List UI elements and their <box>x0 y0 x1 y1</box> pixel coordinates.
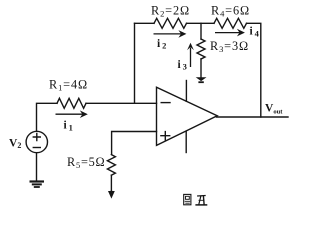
op-amp power stub bottom <box>185 131 187 152</box>
current arrow i1 <box>56 110 88 118</box>
svg-text:R3=3Ω: R3=3Ω <box>210 39 249 54</box>
V2 plus sign <box>33 134 40 141</box>
svg-text:R1=4Ω: R1=4Ω <box>49 78 88 93</box>
svg-text:i2: i2 <box>157 38 166 51</box>
svg-text:R2=2Ω: R2=2Ω <box>151 3 190 18</box>
wire R3 bottom <box>200 59 202 77</box>
wire top left segment <box>135 22 155 24</box>
ground arrow (below R5) <box>108 190 115 199</box>
current arrow i4 <box>215 29 245 37</box>
wire R1 to op-amp minus input <box>86 102 157 104</box>
voltage source V2 <box>26 131 47 152</box>
svg-text:R4=6Ω: R4=6Ω <box>211 3 250 18</box>
wire feedback vertical <box>134 23 136 103</box>
caption: Chinese character Wu (five) <box>195 196 207 205</box>
wire output <box>217 116 289 118</box>
svg-text:i4: i4 <box>250 26 260 39</box>
wire V2 bottom to ground <box>36 153 38 181</box>
resistor R2 <box>154 18 187 28</box>
caption: Chinese character Tu (figure) <box>184 194 191 204</box>
resistor R5 <box>107 155 115 176</box>
svg-text:R5=5Ω: R5=5Ω <box>67 155 105 170</box>
current arrow i3 <box>187 43 194 67</box>
wire R5 bottom <box>110 175 112 191</box>
resistor R1 <box>57 98 86 108</box>
ground (below V2) <box>30 182 45 188</box>
resistor R4 <box>214 18 247 28</box>
svg-text:Vout: Vout <box>265 103 283 116</box>
resistor R3 <box>197 39 205 59</box>
op-amp power stub top <box>185 81 187 102</box>
op-amp minus sign <box>161 102 170 104</box>
wire top right corner down to output <box>247 23 261 117</box>
wire V2 top to input node <box>37 103 58 131</box>
V2 minus sign <box>33 147 40 149</box>
svg-text:V2: V2 <box>9 137 21 150</box>
op-amp U1 <box>157 87 218 145</box>
ground (below R3, arrow style) <box>196 77 207 83</box>
svg-text:i3: i3 <box>178 59 187 72</box>
wire R2 to R4 through node A <box>187 22 215 24</box>
wire op-amp plus input <box>112 132 157 155</box>
svg-text:i1: i1 <box>64 120 73 133</box>
wire node A down to R3 <box>200 23 202 39</box>
current arrow i2 <box>154 30 187 38</box>
op-amp plus sign <box>161 132 170 140</box>
